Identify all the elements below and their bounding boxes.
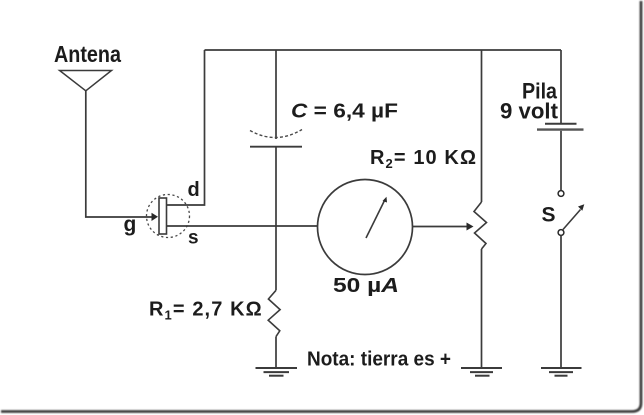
gate arrow into Q1: [152, 213, 159, 221]
ground (battery): [541, 368, 582, 376]
wire switch to ground: [560, 236, 562, 368]
svg-text:d: d: [188, 179, 200, 201]
potentiometer R2 zigzag: [474, 202, 487, 249]
switch S arm arrowhead: [578, 204, 584, 210]
battery BT1 top plate: [545, 123, 577, 125]
svg-text:s: s: [188, 228, 199, 249]
antenna: [60, 71, 112, 91]
svg-text:50 µA: 50 µA: [333, 275, 399, 297]
battery BT1 bottom plate: [537, 128, 584, 130]
switch S arm: [563, 210, 581, 230]
transistor Q1 channel bar: [159, 198, 167, 234]
ground (R2): [461, 368, 502, 376]
meter needle: [366, 200, 385, 239]
transistor Q1 (FET) circle: [147, 195, 190, 238]
capacitor C curved plate: [250, 130, 302, 138]
switch S upper contact: [558, 191, 564, 197]
svg-text:R2= 10 KΩ: R2= 10 KΩ: [370, 147, 477, 171]
svg-text:S: S: [542, 204, 556, 227]
wire meter to R2 wiper: [413, 226, 468, 228]
wire top rail: [205, 49, 562, 51]
wire drain to top rail: [167, 50, 205, 205]
wire top rail to capacitor C: [275, 50, 277, 139]
wire capacitor to R1: [275, 147, 277, 291]
wire R1 to ground: [275, 337, 277, 368]
wire top rail to R2: [481, 50, 483, 202]
resistor R1 zigzag: [268, 290, 280, 336]
meter needle arrowhead: [383, 197, 388, 203]
wiper arrow into R2: [467, 223, 474, 231]
svg-text:R1= 2,7 KΩ: R1= 2,7 KΩ: [149, 299, 263, 323]
meter M1 body: [318, 180, 413, 275]
wire top rail to battery: [560, 50, 562, 123]
svg-text:C = 6,4 µF: C = 6,4 µF: [291, 101, 398, 123]
svg-text:Antena: Antena: [54, 41, 121, 67]
wire battery to switch: [560, 131, 562, 191]
wire R2 to ground: [481, 249, 483, 368]
capacitor C flat plate: [250, 146, 302, 148]
wire source to meter: [167, 225, 318, 227]
svg-text:9 volt: 9 volt: [500, 99, 559, 124]
ground (R1): [256, 368, 298, 376]
switch S lower contact: [558, 230, 564, 236]
svg-text:g: g: [124, 213, 137, 236]
svg-text:Nota: tierra es +: Nota: tierra es +: [307, 349, 451, 371]
wire antenna to gate: [86, 91, 152, 217]
